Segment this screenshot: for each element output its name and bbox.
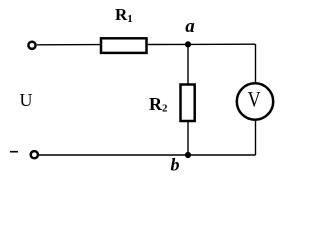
wire (187, 121, 189, 155)
resistor R1 (101, 38, 147, 53)
wire (255, 44, 257, 83)
resistor R2 (181, 85, 195, 122)
svg-text:R2: R2 (149, 94, 168, 115)
wire (148, 43, 188, 45)
terminal bottom-left (31, 151, 38, 158)
svg-text:V: V (248, 86, 261, 111)
wire (187, 44, 189, 84)
minus sign (10, 151, 18, 153)
svg-text:b: b (171, 155, 180, 175)
node a (185, 41, 191, 47)
svg-text:a: a (185, 16, 195, 37)
wire (188, 43, 256, 45)
terminal top-left (28, 42, 35, 49)
wire (255, 120, 257, 155)
svg-text:R1: R1 (115, 5, 133, 25)
node b (185, 152, 191, 158)
voltmeter V (237, 83, 273, 119)
wire (39, 154, 256, 156)
svg-text:U: U (20, 90, 33, 110)
wire (37, 44, 100, 46)
